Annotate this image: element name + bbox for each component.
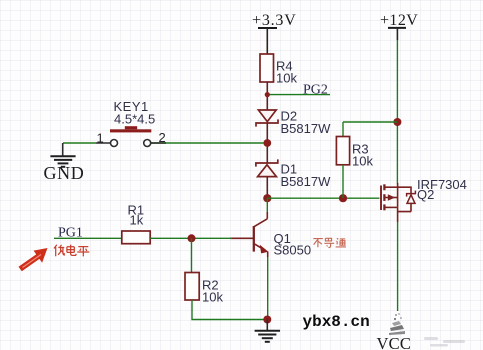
svg-text:1: 1 bbox=[97, 131, 104, 146]
wire +12V down bbox=[396, 40, 398, 184]
wire R3 bottom bbox=[342, 165, 344, 198]
transistor Q2 IRF7304 bbox=[381, 177, 467, 222]
diode D1 B5817W bbox=[256, 147, 331, 196]
resistor R1 bbox=[122, 203, 150, 244]
svg-text:10k: 10k bbox=[202, 290, 223, 305]
node PG2 bbox=[265, 82, 330, 97]
svg-text:GND: GND bbox=[44, 163, 85, 183]
svg-text:+3.3V: +3.3V bbox=[252, 12, 297, 29]
annotation low level bbox=[54, 245, 89, 257]
junction node key/diodes bbox=[263, 139, 271, 147]
wire tee to R3 bbox=[343, 121, 397, 123]
wire R3 top bbox=[342, 122, 344, 137]
ground GND bbox=[44, 143, 85, 183]
svg-text:PG2: PG2 bbox=[303, 82, 328, 97]
switch KEY1 4.5*4.5 bbox=[96, 99, 166, 147]
diode D2 B5817W bbox=[256, 109, 331, 141]
svg-text:VCC: VCC bbox=[377, 334, 412, 350]
resistor R4 bbox=[260, 54, 297, 86]
junction node ground bbox=[263, 316, 271, 324]
wire R4 to D2 bbox=[266, 82, 268, 110]
svg-text:+12V: +12V bbox=[380, 12, 418, 29]
resistor R3 bbox=[336, 137, 373, 169]
svg-text:ybx8.cn: ybx8.cn bbox=[303, 313, 370, 331]
junction node +12V tee bbox=[393, 118, 401, 126]
resistor R2 bbox=[185, 273, 223, 305]
junction node R3 bottom bbox=[339, 194, 347, 202]
junction node R1/R2 bbox=[188, 234, 196, 242]
svg-text:B5817W: B5817W bbox=[281, 121, 332, 136]
annotation red arrow bbox=[19, 248, 48, 271]
svg-text:1k: 1k bbox=[130, 213, 144, 228]
svg-text:2: 2 bbox=[159, 130, 166, 145]
wire Q2 source down bbox=[397, 222, 399, 311]
wire to R2 bbox=[191, 238, 193, 272]
svg-text:10k: 10k bbox=[352, 154, 373, 169]
wire GND to KEY1 bbox=[63, 142, 96, 144]
wire Q1 emitter down bbox=[267, 257, 269, 320]
svg-text:S8050: S8050 bbox=[274, 242, 312, 257]
svg-text:4.5*4.5: 4.5*4.5 bbox=[114, 112, 155, 127]
wire KEY1 to junction bbox=[151, 142, 264, 144]
svg-text:10k: 10k bbox=[276, 71, 297, 86]
power +12V bbox=[380, 12, 418, 40]
net label PG1 bbox=[54, 226, 122, 241]
wire node to gate bbox=[267, 197, 379, 199]
ground symbol bottom bbox=[255, 320, 280, 342]
wire R1 to Q1 base bbox=[150, 237, 232, 239]
wire node to Q1 collector bbox=[266, 198, 268, 212]
svg-text:B5817W: B5817W bbox=[281, 174, 332, 189]
junction node base drive bbox=[263, 194, 271, 202]
faint watermark remnant bbox=[424, 337, 465, 347]
annotation not conducting bbox=[313, 238, 346, 247]
power +3.3V bbox=[252, 12, 297, 54]
transistor Q1 S8050 bbox=[230, 212, 311, 257]
watermark smudge bbox=[389, 313, 405, 335]
svg-text:Q2: Q2 bbox=[417, 187, 434, 202]
wire R2 to ground rail bbox=[192, 300, 264, 320]
